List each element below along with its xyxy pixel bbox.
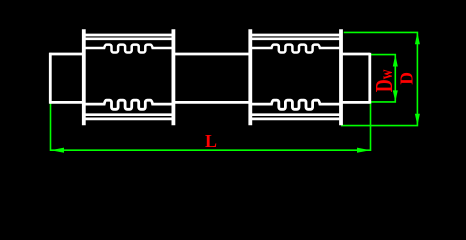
svg-text:L: L bbox=[205, 131, 217, 151]
svg-text:D: D bbox=[396, 72, 416, 85]
